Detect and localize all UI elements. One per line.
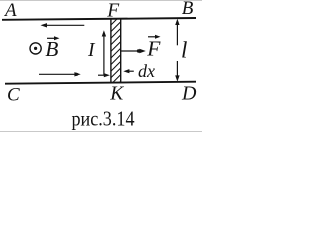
svg-text:F: F xyxy=(146,37,161,61)
force arrow on bar xyxy=(121,49,146,53)
svg-text:dx: dx xyxy=(138,61,155,81)
length l dimension arrow (double-headed vertical) xyxy=(175,19,179,82)
sliding conductor FK (hatched bar) xyxy=(111,15,121,91)
bottom scan border xyxy=(0,131,202,133)
svg-text:C: C xyxy=(7,84,20,105)
field symbol circle-dot xyxy=(30,43,41,54)
rail CD xyxy=(5,82,196,84)
dx measure arrow right side (left-pointing, into bar) xyxy=(123,69,134,73)
dx measure arrow left side (right-pointing, into bar) xyxy=(98,73,110,77)
top scan border xyxy=(0,0,202,2)
current arrow bottom rail (long, right) xyxy=(39,72,81,76)
svg-text:F: F xyxy=(106,0,120,21)
svg-text:B: B xyxy=(45,37,58,61)
rail AB xyxy=(2,18,196,20)
svg-text:рис.3.14: рис.3.14 xyxy=(72,106,135,130)
svg-text:A: A xyxy=(3,0,17,21)
current arrow in bar (up) xyxy=(102,30,106,75)
svg-text:l: l xyxy=(181,37,187,62)
svg-text:D: D xyxy=(181,83,197,105)
current arrow top rail (left) xyxy=(41,23,85,27)
svg-text:B: B xyxy=(182,0,194,19)
vector F label xyxy=(146,35,161,61)
vector B label xyxy=(45,36,59,61)
svg-text:K: K xyxy=(109,84,124,105)
